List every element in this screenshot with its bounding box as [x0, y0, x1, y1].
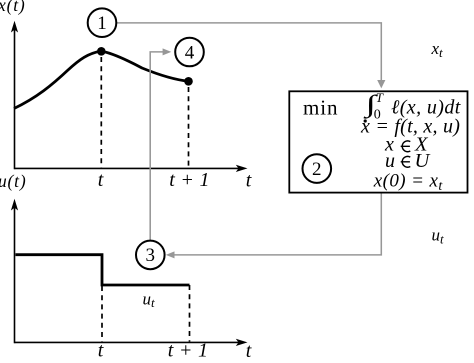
circled 1	[88, 8, 117, 37]
gray arrowhead into box	[377, 80, 385, 88]
bottom plot y-axis	[11, 199, 18, 343]
dashed line at t+1 (bottom plot)	[189, 285, 191, 342]
circled 4	[175, 38, 204, 67]
optimization box	[289, 91, 467, 192]
dashed line at t+1 (top plot)	[188, 87, 190, 168]
circled 2	[303, 154, 332, 183]
svg-text:ut: ut	[432, 226, 445, 247]
constraint u in U	[385, 150, 431, 172]
svg-text:u(t): u(t)	[0, 171, 26, 191]
gray arrowhead into circle 4	[163, 48, 172, 55]
top plot y-axis	[11, 21, 18, 169]
svg-text:t: t	[98, 340, 104, 362]
svg-text:1: 1	[97, 13, 107, 34]
dashed line at t (top plot)	[100, 57, 102, 168]
dot at (t, x_t)	[97, 47, 106, 56]
svg-text:t + 1: t + 1	[168, 340, 209, 362]
svg-text:ut: ut	[143, 289, 156, 310]
svg-text:U: U	[415, 150, 431, 172]
svg-text:3: 3	[146, 245, 156, 266]
dot at (t+1, x_{t+1})	[184, 77, 193, 86]
step input u trajectory	[16, 255, 190, 285]
svg-text:min: min	[303, 96, 338, 120]
svg-text:x = f(t, x, u): x = f(t, x, u)	[360, 116, 460, 138]
svg-text:4: 4	[185, 42, 195, 63]
top plot x-axis	[15, 165, 248, 172]
circled 3	[136, 241, 165, 270]
svg-text:x(t): x(t)	[0, 0, 26, 15]
svg-text:t: t	[246, 340, 252, 362]
svg-text:xt: xt	[431, 39, 444, 60]
svg-text:t: t	[246, 170, 252, 192]
curve x trajectory	[14, 51, 189, 109]
svg-text:2: 2	[312, 159, 322, 180]
bottom plot x-axis	[15, 339, 248, 346]
gray wire 2: box bottom to circle 3	[174, 193, 381, 255]
svg-text:t + 1: t + 1	[169, 169, 210, 191]
gray feedback wire 1: from circle 1 to box top	[117, 23, 382, 81]
integral cost: int_0^T l(x,u)dt	[363, 90, 461, 123]
svg-text:u: u	[385, 150, 395, 172]
constraint x in X	[384, 134, 429, 156]
gray wire 3: circle 3 up to circle 4	[150, 52, 164, 241]
dashed line at t (bottom plot)	[101, 286, 103, 342]
svg-text:x(0) = xt: x(0) = xt	[373, 171, 444, 195]
svg-text:T: T	[376, 90, 384, 105]
gray arrowhead into circle 3	[166, 251, 175, 258]
svg-text:t: t	[98, 169, 104, 191]
dynamics: xdot = f(t,x,u)	[360, 116, 460, 138]
